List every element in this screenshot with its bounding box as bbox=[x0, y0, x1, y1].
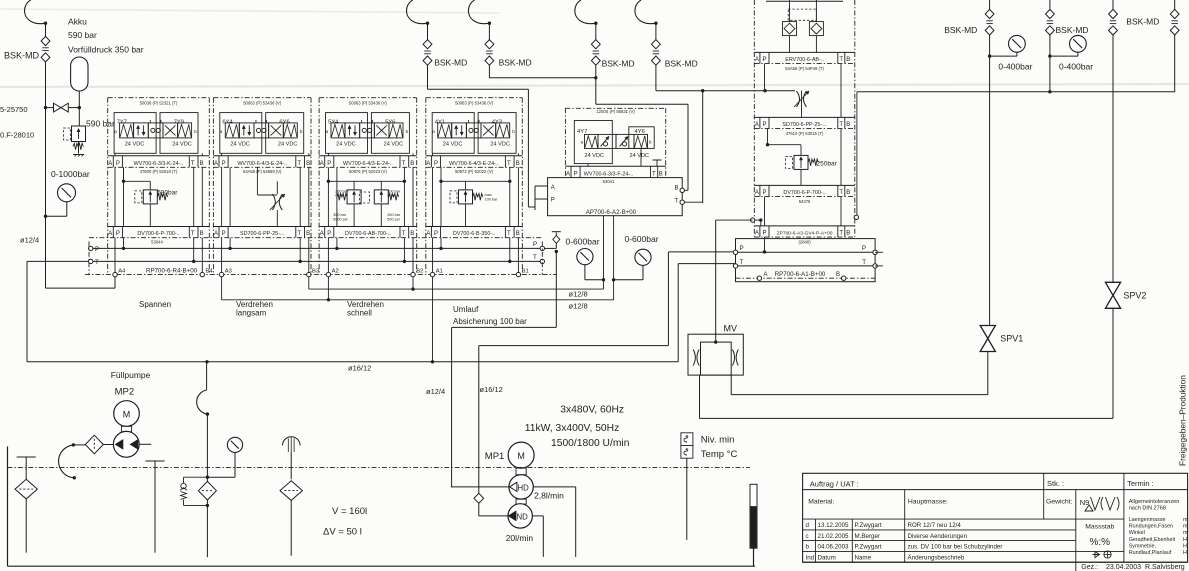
svg-text:T: T bbox=[652, 171, 656, 177]
svg-text:50063 (P) 53436 (V): 50063 (P) 53436 (V) bbox=[455, 100, 494, 105]
svg-text:T: T bbox=[402, 231, 406, 237]
svg-text:P: P bbox=[116, 231, 120, 237]
svg-text:A: A bbox=[108, 231, 112, 237]
svg-text:T: T bbox=[191, 161, 195, 167]
svg-text:P: P bbox=[327, 231, 331, 237]
svg-text:HD: HD bbox=[518, 483, 530, 492]
svg-text:d: d bbox=[806, 522, 810, 529]
svg-text:A3: A3 bbox=[225, 269, 232, 275]
svg-text:A: A bbox=[214, 161, 218, 167]
svg-text:53041: 53041 bbox=[603, 179, 615, 184]
svg-text:P: P bbox=[116, 161, 120, 167]
svg-text:B: B bbox=[846, 190, 850, 196]
svg-text:24 VDC: 24 VDC bbox=[584, 153, 604, 159]
svg-text:ΔV = 50 l: ΔV = 50 l bbox=[323, 527, 362, 538]
svg-text:B: B bbox=[516, 231, 520, 237]
svg-text:Vorfülldruck 350 bar: Vorfülldruck 350 bar bbox=[68, 45, 144, 55]
svg-text:T: T bbox=[95, 259, 99, 266]
svg-text:WV700-6-3/3-K-24-..: WV700-6-3/3-K-24-.. bbox=[134, 161, 184, 167]
svg-text:24 VDC: 24 VDC bbox=[384, 142, 404, 148]
svg-text:5Y4: 5Y4 bbox=[328, 119, 339, 125]
svg-text:Laengenmasse: Laengenmasse bbox=[1129, 517, 1166, 523]
svg-text:SD700-6-PP-25-...: SD700-6-PP-25-... bbox=[240, 231, 284, 237]
svg-text:20l/min: 20l/min bbox=[506, 533, 534, 543]
svg-text:Termin :: Termin : bbox=[1127, 479, 1154, 488]
svg-text:Umlauf: Umlauf bbox=[453, 305, 479, 314]
svg-text:Akku: Akku bbox=[68, 17, 87, 27]
svg-text:H: H bbox=[1183, 543, 1187, 549]
svg-text:ø12/4: ø12/4 bbox=[426, 387, 445, 396]
svg-text:A: A bbox=[755, 190, 759, 196]
svg-text:BSK-MD: BSK-MD bbox=[4, 51, 40, 61]
svg-text:P: P bbox=[551, 198, 555, 204]
svg-text:50972 (P) 52022 (V): 50972 (P) 52022 (V) bbox=[455, 169, 494, 174]
svg-text:A4: A4 bbox=[118, 269, 126, 275]
svg-text:A: A bbox=[755, 57, 759, 63]
svg-text:590bar: 590bar bbox=[157, 190, 178, 197]
svg-text:ø12/8: ø12/8 bbox=[569, 301, 588, 310]
svg-text:m: m bbox=[1183, 530, 1188, 536]
svg-text:0-400bar: 0-400bar bbox=[1059, 61, 1093, 71]
svg-text:T: T bbox=[533, 254, 537, 261]
svg-text:DV700-6-AB-700-..: DV700-6-AB-700-.. bbox=[345, 231, 391, 237]
svg-text:A: A bbox=[755, 122, 759, 128]
svg-text:BSK-MD: BSK-MD bbox=[944, 25, 977, 35]
svg-text:BSK-MD: BSK-MD bbox=[1126, 17, 1159, 27]
svg-text:c: c bbox=[806, 533, 809, 540]
svg-text:P: P bbox=[434, 161, 438, 167]
svg-text:SPV1: SPV1 bbox=[1000, 334, 1023, 344]
svg-text:24 VDC: 24 VDC bbox=[230, 142, 250, 148]
svg-text:54A58 (P) 54P49 (T): 54A58 (P) 54P49 (T) bbox=[785, 66, 824, 71]
svg-text:P: P bbox=[222, 231, 226, 237]
svg-text:H: H bbox=[1183, 537, 1187, 543]
svg-text:350 bar: 350 bar bbox=[387, 213, 401, 217]
svg-text:T: T bbox=[191, 231, 195, 237]
svg-text:5-25750: 5-25750 bbox=[0, 105, 28, 114]
svg-text:Diverse Aenderungen: Diverse Aenderungen bbox=[908, 533, 968, 540]
svg-text:MP2: MP2 bbox=[115, 386, 135, 397]
svg-text:M: M bbox=[123, 409, 131, 419]
svg-text:24 VDC: 24 VDC bbox=[443, 142, 463, 148]
svg-text:b: b bbox=[806, 544, 810, 551]
svg-text:BSK-MD: BSK-MD bbox=[1056, 25, 1089, 35]
svg-text:2,8l/min: 2,8l/min bbox=[534, 491, 564, 501]
svg-text:Freigegeben–Produktion: Freigegeben–Produktion bbox=[1178, 375, 1188, 466]
svg-text:6Y6: 6Y6 bbox=[279, 119, 289, 125]
svg-text:Stk. :: Stk. : bbox=[1047, 479, 1064, 488]
svg-text:T: T bbox=[839, 190, 843, 196]
svg-text:B3: B3 bbox=[312, 269, 319, 275]
svg-text:P: P bbox=[762, 122, 766, 128]
svg-text:B: B bbox=[410, 161, 414, 167]
svg-text:Auftrag / UAT :: Auftrag / UAT : bbox=[810, 480, 859, 489]
svg-text:RP700-6-R4-B+00: RP700-6-R4-B+00 bbox=[146, 268, 198, 275]
svg-text:P: P bbox=[762, 230, 766, 236]
svg-text:13.12.2005: 13.12.2005 bbox=[818, 522, 850, 529]
svg-text:%:%: %:% bbox=[1090, 537, 1111, 548]
svg-text:Massstab: Massstab bbox=[1085, 524, 1114, 531]
svg-text:P.Zwygart: P.Zwygart bbox=[855, 522, 882, 529]
svg-text:BSK-MD: BSK-MD bbox=[499, 58, 532, 68]
svg-text:B4: B4 bbox=[206, 269, 214, 275]
svg-text:B: B bbox=[200, 231, 204, 237]
svg-text:Name: Name bbox=[855, 554, 872, 561]
svg-text:P: P bbox=[533, 241, 537, 248]
svg-text:4Y6: 4Y6 bbox=[635, 129, 645, 135]
svg-text:M.Berger: M.Berger bbox=[855, 533, 880, 540]
svg-text:50038 (P) 52321 (T): 50038 (P) 52321 (T) bbox=[140, 100, 178, 105]
svg-text:N9: N9 bbox=[1080, 498, 1090, 507]
svg-text:langsam: langsam bbox=[236, 309, 267, 318]
svg-text:250bar: 250bar bbox=[817, 161, 838, 168]
svg-text:(2840): (2840) bbox=[798, 239, 811, 244]
svg-text:24 VDC: 24 VDC bbox=[336, 142, 356, 148]
svg-text:53044: 53044 bbox=[151, 239, 163, 244]
svg-text:Absicherung 100 bar: Absicherung 100 bar bbox=[453, 317, 527, 326]
svg-text:Rundungen,Fasen: Rundungen,Fasen bbox=[1129, 524, 1173, 530]
svg-text:max.: max. bbox=[485, 193, 493, 197]
svg-text:ø16/12: ø16/12 bbox=[480, 385, 503, 394]
svg-text:T: T bbox=[675, 199, 679, 205]
svg-text:MP1: MP1 bbox=[485, 451, 505, 462]
svg-text:B: B bbox=[306, 161, 310, 167]
svg-text:T: T bbox=[839, 122, 843, 128]
svg-text:Geradheit,Ebenheit: Geradheit,Ebenheit bbox=[1129, 537, 1176, 543]
svg-text:A: A bbox=[214, 231, 218, 237]
svg-text:Ind: Ind bbox=[806, 554, 815, 561]
svg-text:BSK-MD: BSK-MD bbox=[434, 58, 467, 68]
svg-text:0-600bar: 0-600bar bbox=[566, 237, 600, 247]
svg-text:A: A bbox=[566, 171, 570, 177]
svg-text:nach DIN 2768: nach DIN 2768 bbox=[1129, 505, 1166, 511]
svg-text:DV700-6-P-700-..: DV700-6-P-700-.. bbox=[783, 190, 825, 196]
svg-text:B: B bbox=[846, 122, 850, 128]
svg-text:24 VDC: 24 VDC bbox=[490, 142, 510, 148]
svg-text:A: A bbox=[551, 185, 555, 191]
svg-text:B: B bbox=[675, 186, 679, 192]
svg-text:T: T bbox=[297, 161, 301, 167]
svg-text:B: B bbox=[659, 171, 663, 177]
svg-text:0-400bar: 0-400bar bbox=[998, 61, 1032, 71]
svg-text:6Y4: 6Y4 bbox=[222, 119, 233, 125]
svg-text:Verdrehen: Verdrehen bbox=[236, 300, 273, 309]
svg-text:B1: B1 bbox=[522, 269, 529, 275]
svg-text:500 psi: 500 psi bbox=[387, 218, 399, 222]
svg-text:P: P bbox=[95, 246, 99, 253]
svg-text:54378: 54378 bbox=[799, 199, 811, 204]
svg-text:47600 (P) 52018 (T): 47600 (P) 52018 (T) bbox=[140, 169, 178, 174]
svg-text:B: B bbox=[516, 161, 520, 167]
svg-text:ZP700-6-A3-GV4-P-A+00: ZP700-6-A3-GV4-P-A+00 bbox=[777, 230, 833, 236]
svg-text:ø12/4: ø12/4 bbox=[20, 236, 39, 245]
svg-text:A2: A2 bbox=[332, 269, 339, 275]
svg-text:RP700-6-A1-B+00: RP700-6-A1-B+00 bbox=[775, 271, 826, 278]
svg-text:P: P bbox=[434, 231, 438, 237]
svg-text:Änderungsbeschrieb: Änderungsbeschrieb bbox=[908, 554, 965, 561]
svg-text:Rundlauf,Planlauf: Rundlauf,Planlauf bbox=[1129, 550, 1172, 556]
svg-text:24 VDC: 24 VDC bbox=[278, 142, 298, 148]
svg-text:ø16/12: ø16/12 bbox=[348, 363, 371, 372]
svg-text:P: P bbox=[762, 190, 766, 196]
svg-text:P: P bbox=[762, 57, 766, 63]
svg-text:Gez.:: Gez.: bbox=[1081, 564, 1098, 571]
svg-text:P.Zwygart: P.Zwygart bbox=[855, 544, 882, 551]
svg-text:3x480V, 60Hz: 3x480V, 60Hz bbox=[560, 405, 624, 416]
svg-text:0-600bar: 0-600bar bbox=[625, 234, 659, 244]
svg-text:1500/1800 U/min: 1500/1800 U/min bbox=[551, 438, 630, 449]
svg-text:A: A bbox=[426, 231, 430, 237]
svg-text:T: T bbox=[839, 230, 843, 236]
svg-text:T: T bbox=[839, 57, 843, 63]
svg-text:T: T bbox=[507, 161, 511, 167]
svg-text:T: T bbox=[297, 231, 301, 237]
svg-text:B: B bbox=[410, 231, 414, 237]
svg-text:Füllpumpe: Füllpumpe bbox=[111, 370, 151, 380]
svg-text:A: A bbox=[320, 161, 324, 167]
svg-text:AP700-6-A2-B+00: AP700-6-A2-B+00 bbox=[586, 209, 637, 216]
svg-text:A: A bbox=[426, 161, 430, 167]
svg-text:M: M bbox=[517, 451, 525, 461]
svg-text:7Y9: 7Y9 bbox=[174, 119, 184, 125]
svg-text:max.: max. bbox=[335, 194, 343, 198]
svg-text:B: B bbox=[846, 57, 850, 63]
svg-text:350 bar: 350 bar bbox=[333, 213, 347, 217]
svg-text:R.Salvisberg: R.Salvisberg bbox=[1145, 564, 1185, 571]
svg-text:21.02.2005: 21.02.2005 bbox=[818, 533, 850, 540]
svg-text:P: P bbox=[862, 245, 866, 252]
svg-text:DV700-6-P-700-..: DV700-6-P-700-.. bbox=[137, 231, 179, 237]
svg-text:Winkel: Winkel bbox=[1129, 530, 1145, 536]
svg-text:Hauptmasse:: Hauptmasse: bbox=[908, 499, 948, 506]
svg-text:T: T bbox=[740, 259, 744, 266]
svg-text:T: T bbox=[862, 259, 866, 266]
svg-text:Verdrehen: Verdrehen bbox=[347, 300, 384, 309]
svg-text:47610 (P) 53015 (T): 47610 (P) 53015 (T) bbox=[786, 131, 824, 136]
svg-text:4Y7: 4Y7 bbox=[577, 129, 587, 135]
svg-text:50063 (P) 53436 (V): 50063 (P) 53436 (V) bbox=[349, 100, 388, 105]
svg-text:MV: MV bbox=[724, 324, 738, 334]
svg-text:A: A bbox=[108, 161, 112, 167]
svg-text:P: P bbox=[222, 161, 226, 167]
svg-text:A1: A1 bbox=[436, 269, 443, 275]
svg-text:4Y3: 4Y3 bbox=[492, 119, 502, 125]
svg-text:A: A bbox=[320, 231, 324, 237]
svg-text:B: B bbox=[200, 161, 204, 167]
svg-text:Datum: Datum bbox=[818, 554, 836, 561]
svg-text:WV700-6-4/3-E-24-..: WV700-6-4/3-E-24-.. bbox=[343, 161, 393, 167]
svg-text:04.06.2003: 04.06.2003 bbox=[818, 544, 850, 551]
svg-text:T: T bbox=[402, 161, 406, 167]
svg-text:1200S (P) 55831 (V): 1200S (P) 55831 (V) bbox=[596, 109, 635, 114]
svg-text:7Y7: 7Y7 bbox=[117, 119, 127, 125]
svg-text:Gewicht:: Gewicht: bbox=[1046, 499, 1073, 506]
svg-text:54A58 (P) 54969 (V): 54A58 (P) 54969 (V) bbox=[243, 169, 282, 174]
svg-text:ø12/8: ø12/8 bbox=[569, 289, 588, 298]
svg-text:Symmetrie,: Symmetrie, bbox=[1129, 543, 1157, 549]
svg-text:WV700-6-3/3-F-24-..: WV700-6-3/3-F-24-.. bbox=[584, 171, 633, 177]
svg-text:50063 (P) 53436 (V): 50063 (P) 53436 (V) bbox=[243, 100, 282, 105]
svg-text:50976 (P) 52023 (V): 50976 (P) 52023 (V) bbox=[349, 169, 388, 174]
svg-text:0.F-28010: 0.F-28010 bbox=[0, 131, 34, 140]
svg-text:A: A bbox=[764, 272, 768, 278]
svg-text:m: m bbox=[1183, 524, 1188, 530]
svg-text:B: B bbox=[306, 231, 310, 237]
svg-text:ND: ND bbox=[517, 512, 529, 521]
svg-text:SPV2: SPV2 bbox=[1123, 290, 1146, 300]
svg-text:11kW, 3x400V, 50Hz: 11kW, 3x400V, 50Hz bbox=[525, 423, 619, 434]
svg-text:23.04.2003: 23.04.2003 bbox=[1106, 564, 1141, 571]
svg-text:100 bar: 100 bar bbox=[485, 198, 499, 202]
svg-text:BSK-MD: BSK-MD bbox=[665, 58, 698, 68]
svg-text:zus. DV 100 bar bei Schubzyl: zus. DV 100 bar bei Schubzylinder bbox=[908, 544, 1003, 551]
svg-text:5Y6: 5Y6 bbox=[385, 119, 395, 125]
svg-text:schnell: schnell bbox=[347, 309, 372, 318]
svg-text:WV700-6-4/3-E-24-..: WV700-6-4/3-E-24-.. bbox=[449, 161, 499, 167]
svg-text:590 bar: 590 bar bbox=[86, 119, 115, 129]
svg-text:4Y1: 4Y1 bbox=[435, 119, 445, 125]
svg-text:Temp °C: Temp °C bbox=[701, 449, 738, 460]
svg-text:B2: B2 bbox=[416, 269, 423, 275]
svg-text:BSK-MD: BSK-MD bbox=[602, 58, 635, 68]
svg-text:P: P bbox=[327, 161, 331, 167]
svg-text:ERV700-6-AB-..: ERV700-6-AB-.. bbox=[785, 57, 824, 63]
svg-text:Material:: Material: bbox=[808, 499, 834, 506]
svg-text:24 VDC: 24 VDC bbox=[630, 153, 650, 159]
svg-text:max.: max. bbox=[387, 194, 395, 198]
svg-text:WV700-6-4/3-E-24-..: WV700-6-4/3-E-24-.. bbox=[237, 161, 287, 167]
svg-text:H: H bbox=[1183, 550, 1187, 556]
svg-text:24 VDC: 24 VDC bbox=[172, 142, 192, 148]
svg-text:ROR 12/7 neu 12/4: ROR 12/7 neu 12/4 bbox=[908, 522, 962, 529]
svg-text:A: A bbox=[755, 230, 759, 236]
svg-text:B: B bbox=[846, 230, 850, 236]
svg-text:DV700-6-B-350-..: DV700-6-B-350-.. bbox=[453, 231, 495, 237]
svg-text:T: T bbox=[507, 231, 511, 237]
svg-text:m: m bbox=[1183, 517, 1188, 523]
svg-text:B: B bbox=[836, 272, 840, 278]
svg-text:Spannen: Spannen bbox=[139, 300, 171, 309]
svg-text:Allgemeintoleranzen: Allgemeintoleranzen bbox=[1129, 499, 1180, 505]
svg-text:V = 160l: V = 160l bbox=[332, 506, 367, 517]
svg-text:P: P bbox=[740, 245, 744, 252]
svg-text:SD700-6-PP-25-...: SD700-6-PP-25-... bbox=[782, 122, 826, 128]
svg-text:24 VDC: 24 VDC bbox=[125, 142, 145, 148]
svg-text:590 bar: 590 bar bbox=[68, 30, 97, 40]
svg-text:Niv. min: Niv. min bbox=[701, 434, 735, 445]
svg-text:5000 psi: 5000 psi bbox=[333, 218, 348, 222]
svg-text:P: P bbox=[574, 171, 578, 177]
svg-text:0-1000bar: 0-1000bar bbox=[51, 169, 90, 179]
